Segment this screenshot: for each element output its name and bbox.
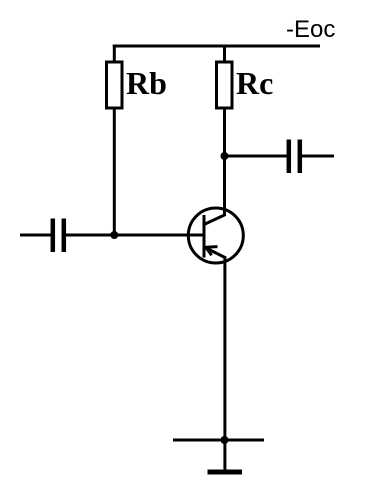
wire: emitter down to ground junction <box>223 257 226 441</box>
wire: rail to Rb top <box>113 45 116 64</box>
wire: Rb bottom to base junction <box>113 108 116 236</box>
transistor Q1 (PNP) <box>188 208 243 263</box>
wire: output lead right of capacitor <box>302 155 334 158</box>
wire: rail to Rc top <box>223 45 226 64</box>
node: collector output junction <box>221 152 229 160</box>
wire: capacitor to base bar <box>66 234 204 237</box>
capacitor C1 (input coupling) <box>53 219 64 253</box>
svg-text:-Eoc: -Eoc <box>286 16 335 43</box>
wire: junction to ground <box>223 440 226 470</box>
svg-text:Rc: Rc <box>236 65 273 101</box>
resistor Rb <box>107 62 123 108</box>
wire: bottom horizontal line <box>173 439 264 442</box>
capacitor C2 (output coupling) <box>289 140 300 174</box>
wire: junction to output capacitor <box>225 155 289 158</box>
wire: Rc bottom to collector junction <box>223 108 226 158</box>
wire: top supply rail <box>113 45 320 48</box>
ground <box>208 470 243 475</box>
node: emitter ground junction <box>221 436 229 444</box>
wire: input lead left of capacitor <box>20 234 52 237</box>
node: base junction <box>110 231 118 239</box>
svg-text:Rb: Rb <box>126 65 167 101</box>
wire: collector junction down to transistor <box>223 156 226 216</box>
resistor Rc <box>217 62 233 108</box>
